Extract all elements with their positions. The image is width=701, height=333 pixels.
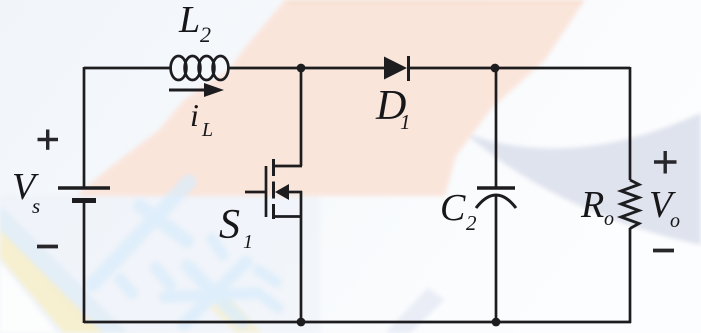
battery long plate xyxy=(58,186,110,190)
yellow dash bottom-center xyxy=(208,298,262,333)
inductor L2 xyxy=(171,56,229,80)
svg-text:o: o xyxy=(670,210,680,232)
scattered dashes xyxy=(120,279,132,293)
wire right rail lower xyxy=(629,228,632,323)
plus sign source xyxy=(38,130,59,150)
resistor Ro xyxy=(621,180,639,229)
plus sign output xyxy=(654,151,677,174)
white corner bottom-left xyxy=(0,262,57,333)
svg-text:S: S xyxy=(219,202,240,248)
faint lavender streak bottom-center-right xyxy=(385,288,444,333)
svg-text:o: o xyxy=(604,208,614,230)
diode D1 xyxy=(384,56,409,81)
minus sign output xyxy=(653,249,674,253)
drain contact dash xyxy=(272,159,275,176)
bottom-left lower base tint xyxy=(0,196,320,333)
minus sign source xyxy=(37,245,58,249)
pink top darker strip xyxy=(285,0,583,4)
battery short plate xyxy=(72,198,96,203)
node capacitor-top junction xyxy=(491,64,500,73)
node source-bottom junction xyxy=(297,318,306,327)
svg-text:i: i xyxy=(190,97,199,133)
gate lead xyxy=(245,191,266,194)
svg-text:C: C xyxy=(440,187,466,229)
svg-text:L: L xyxy=(201,119,213,141)
current arrow iL xyxy=(169,83,224,97)
wire left rail lower xyxy=(83,200,86,323)
body contact dash xyxy=(272,182,275,199)
wire mosfet drain vertical xyxy=(300,68,303,166)
wire mosfet source vertical xyxy=(300,191,303,322)
svg-text:2: 2 xyxy=(466,211,477,235)
wire top-left horizontal xyxy=(84,67,170,70)
blue swoosh right xyxy=(465,113,701,245)
blue chevron band bottom-left xyxy=(0,205,128,333)
capacitor top plate xyxy=(477,186,515,189)
long NE-SW brush stroke xyxy=(93,182,189,284)
node drain-top junction xyxy=(297,64,306,73)
svg-text:1: 1 xyxy=(243,231,253,253)
node capacitor-bottom junction xyxy=(492,318,501,327)
yellow band bottom-left xyxy=(0,230,103,333)
capacitor C2 xyxy=(476,188,516,208)
wire diode to top-right corner xyxy=(410,67,630,70)
source lead horizontal xyxy=(274,215,303,218)
short NW-SE cross stroke xyxy=(140,206,187,241)
source contact dash xyxy=(272,204,275,219)
asterisk cluster xyxy=(190,268,242,322)
body lead with arrow xyxy=(287,191,302,194)
wire capacitor upper xyxy=(495,68,498,188)
svg-text:2: 2 xyxy=(200,22,211,47)
wire right rail upper xyxy=(629,67,632,180)
mosfet arrow head xyxy=(275,184,289,200)
battery Vs xyxy=(58,188,110,201)
wire left rail upper xyxy=(83,67,86,188)
gate bar xyxy=(265,166,268,217)
wire bottom xyxy=(84,321,631,324)
svg-text:R: R xyxy=(580,184,604,226)
light blue watermark strokes xyxy=(93,182,278,324)
transistor S1 (MOSFET) xyxy=(245,159,302,219)
drain lead horizontal xyxy=(274,165,302,168)
svg-text:1: 1 xyxy=(400,110,411,134)
capacitor curved plate xyxy=(476,195,516,208)
svg-text:s: s xyxy=(32,194,40,218)
wire capacitor lower xyxy=(495,196,498,322)
svg-text:L: L xyxy=(178,0,200,41)
pink band xyxy=(77,0,585,196)
wire inductor to diode xyxy=(227,67,384,70)
